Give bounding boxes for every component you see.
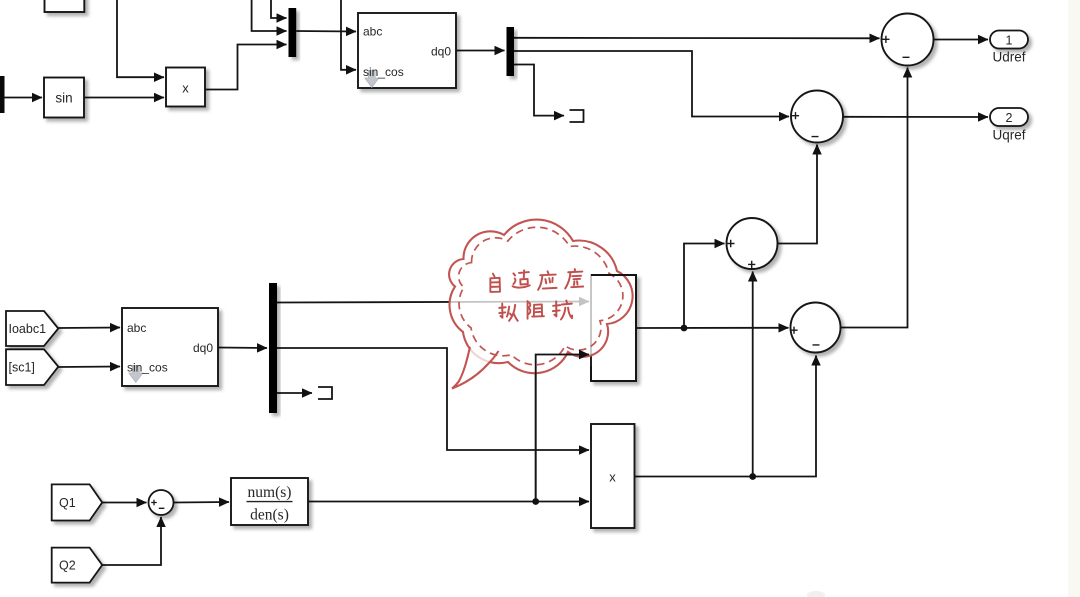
svg-text:x: x <box>609 470 616 485</box>
annotation cloud <box>449 220 633 389</box>
svg-text:sin_cos: sin_cos <box>127 361 168 375</box>
block U3 behind cloud <box>591 275 636 381</box>
gray arrow icon U2 <box>129 366 143 383</box>
wire branch up to sum S3 bottom <box>752 272 754 477</box>
abc-dq0 block U1 <box>358 13 456 88</box>
sum S3 <box>727 218 778 269</box>
from tag Ioabc1 <box>6 311 58 346</box>
svg-text:1: 1 <box>1006 34 1013 48</box>
annotation text: char xu <box>565 269 583 288</box>
svg-text:abc: abc <box>363 25 382 39</box>
wire sum S4 to sum S1 bottom <box>841 68 908 328</box>
svg-text:Q1: Q1 <box>59 496 76 510</box>
block U3 edges redrawn over cloud <box>591 275 636 381</box>
from tag sc1 <box>6 349 58 385</box>
wire branch up to sum S3 left <box>684 244 725 329</box>
sum S2 <box>791 91 843 143</box>
wire mux to abc block U1 <box>296 30 356 33</box>
wire product P1 to sum S4 bottom <box>635 356 817 477</box>
wire demux D1 out1 to sum S1 <box>514 37 880 40</box>
demux D1 <box>507 27 515 76</box>
annotation text: char kang <box>553 301 572 320</box>
wire branch up to block U3 input2 <box>536 355 589 502</box>
svg-text:Q2: Q2 <box>59 559 76 573</box>
wire product x to mux input3 <box>205 45 287 90</box>
wire demux D2 out1 to block U3 input1 <box>277 302 589 303</box>
partial mux bar left edge <box>0 76 5 113</box>
wire demux D1 out2 to sum S2 <box>514 51 789 117</box>
wire into sin <box>0 97 42 99</box>
transfer fcn block <box>231 478 308 525</box>
bottom smudge <box>807 591 825 597</box>
from tag Q2 <box>52 548 102 583</box>
svg-text:x: x <box>182 81 189 96</box>
demux D2 <box>269 283 277 413</box>
block product x small <box>166 68 205 107</box>
svg-text:sin: sin <box>55 91 72 106</box>
partial block top left <box>45 0 85 12</box>
terminator T1 <box>570 110 584 122</box>
wire sum S3 to sum S2 bottom <box>778 145 818 244</box>
wire Q2 to sum S5 bottom <box>102 517 161 565</box>
wire sc1 to sin_cos U2 <box>58 366 120 369</box>
svg-text:abc: abc <box>127 321 146 335</box>
svg-text:Uqref: Uqref <box>992 128 1025 143</box>
svg-text:num(s): num(s) <box>248 484 292 501</box>
svg-text:dq0: dq0 <box>193 341 213 355</box>
cloud inner dashed line <box>459 227 623 365</box>
wire demux D2 out3 to terminator T2 <box>277 392 312 394</box>
from tag Q1 <box>52 484 102 520</box>
wire top vertical to mux input2 <box>252 0 287 31</box>
wire Q1 to sum S5 <box>102 502 146 504</box>
annotation text: char ni <box>499 304 517 321</box>
wire block U3 to sum S4 <box>636 327 789 329</box>
junction dot C <box>749 473 756 480</box>
abc-dq0 block U2 <box>122 308 218 386</box>
gray arrow icon U1 <box>365 71 379 88</box>
wire top vertical to mux input1 <box>271 0 287 18</box>
wire sum S5 to transfer fcn <box>174 501 230 504</box>
svg-text:2: 2 <box>1006 111 1013 125</box>
wire top vertical to product x input1 <box>117 0 164 77</box>
annotation text: char shi <box>513 270 530 287</box>
annotation text: char ying <box>538 271 556 289</box>
wire sum S2 to outport 2 <box>843 116 988 118</box>
wire transfer fcn to product P1 input2 <box>308 501 589 503</box>
outport 1 <box>990 31 1028 49</box>
wire sin to product x <box>84 97 164 99</box>
outport 2 <box>990 108 1028 126</box>
svg-text:Udref: Udref <box>992 50 1025 65</box>
wire Ioabc1 to abc block U2 <box>58 327 120 330</box>
wire into U3 input2 redrawn over cloud <box>536 355 589 502</box>
sum S5 <box>149 490 174 515</box>
wire dq0 U2 to demux D2 <box>218 347 267 350</box>
product block P1 <box>591 424 635 528</box>
terminator T2 <box>318 387 332 399</box>
right edge tint <box>1068 0 1080 597</box>
svg-text:sin_cos: sin_cos <box>363 65 404 79</box>
svg-text:den(s): den(s) <box>250 507 289 524</box>
svg-text:dq0: dq0 <box>431 45 451 59</box>
wire demux D1 out3 to terminator T1 <box>514 65 564 116</box>
annotation text: char zi <box>490 274 500 292</box>
sum S1 <box>882 14 934 66</box>
svg-text:[sc1]: [sc1] <box>9 361 35 375</box>
junction dot A <box>532 498 539 505</box>
wire top vertical to sin_cos input U1 <box>341 0 356 70</box>
annotation text: char zu <box>528 301 544 319</box>
sum S4 <box>791 303 841 353</box>
wire dq0 U1 to demux D1 <box>456 50 505 52</box>
block sin <box>44 78 84 118</box>
cloud tail <box>452 347 499 389</box>
junction dot B <box>681 325 688 332</box>
wire sum S1 to outport 1 <box>934 39 989 41</box>
mux M1 <box>289 8 297 57</box>
wire demux D2 out2 to product P1 input1 <box>277 348 589 450</box>
svg-text:Ioabc1: Ioabc1 <box>9 322 47 336</box>
